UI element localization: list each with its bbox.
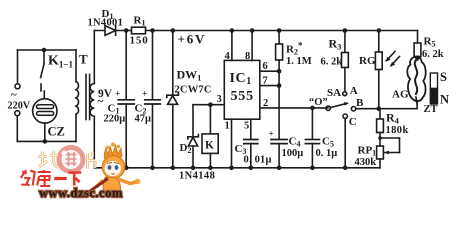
contact B — [351, 107, 355, 111]
pin 3 wire — [193, 104, 224, 106]
capacitor C3 — [244, 139, 258, 141]
node rail C1 — [124, 28, 129, 33]
watermark mascot — [88, 143, 140, 195]
svg-text:SA: SA — [327, 87, 341, 99]
pin 4 wire — [231, 31, 233, 61]
node rail DW1 — [171, 28, 176, 33]
pin 5 wire — [250, 119, 252, 139]
switch SA blade — [330, 103, 347, 107]
svg-text:220μ: 220μ — [104, 114, 126, 125]
relay contact K1-1 — [43, 50, 45, 64]
node gnd C5 — [310, 166, 315, 171]
svg-text:220V: 220V — [8, 101, 31, 112]
svg-text:T: T — [79, 52, 88, 67]
watermark char pian — [88, 152, 96, 169]
wire +6V top rail — [94, 30, 417, 32]
socket CZ — [33, 99, 57, 123]
svg-text:AG: AG — [392, 89, 409, 101]
resistor R5 — [417, 31, 419, 44]
transformer T secondary — [93, 31, 95, 84]
node gnd K — [208, 166, 213, 171]
wire ground rail — [94, 167, 380, 169]
relay coil K — [209, 105, 211, 134]
node gnd C3 — [249, 166, 254, 171]
diode D1 — [105, 26, 116, 36]
svg-text:www.dzsc.com: www.dzsc.com — [39, 186, 123, 200]
node rail R3 — [343, 28, 348, 33]
contact C — [343, 114, 347, 118]
node C5 junction — [310, 106, 315, 111]
svg-text:B: B — [356, 97, 364, 109]
wire mains top — [18, 49, 77, 51]
pin 2 wire — [260, 107, 328, 109]
IC U1 555 — [224, 60, 259, 119]
svg-text:+6V: +6V — [178, 32, 207, 47]
node mains top junction — [42, 48, 47, 53]
watermark badge ring — [38, 148, 95, 172]
wiper RP1 — [383, 152, 399, 154]
svg-text:S: S — [440, 70, 447, 84]
svg-text:CZ: CZ — [48, 125, 65, 139]
node AG top — [415, 56, 420, 61]
pin 6 wire — [260, 70, 279, 72]
svg-text:2CW7C: 2CW7C — [175, 85, 212, 96]
node CZ bottom — [43, 139, 48, 144]
plug 220V terminal bottom — [15, 111, 20, 116]
svg-text:4: 4 — [225, 51, 231, 62]
pin 7 wire — [260, 85, 279, 87]
svg-text:A: A — [350, 85, 358, 97]
svg-text:8: 8 — [245, 51, 250, 62]
photoresistor RG — [378, 31, 380, 53]
svg-text:0. 01μ: 0. 01μ — [244, 155, 272, 166]
svg-text:150: 150 — [130, 35, 149, 47]
zener diode DW1 — [172, 31, 174, 96]
node rail pin8 — [250, 28, 255, 33]
svg-text:+: + — [269, 129, 274, 139]
node gnd C1 — [124, 166, 129, 171]
svg-text:+: + — [142, 90, 147, 100]
svg-text:1: 1 — [225, 121, 230, 132]
svg-text:ZT: ZT — [424, 104, 438, 115]
transformer core — [85, 75, 87, 120]
svg-text:+: + — [115, 90, 120, 100]
node gnd D2 — [191, 166, 196, 171]
svg-text:2: 2 — [263, 98, 268, 109]
watermark weiku text — [21, 170, 81, 186]
node gnd DW1 — [171, 166, 176, 171]
switch SA pole — [326, 106, 330, 110]
node gnd C2 — [150, 166, 155, 171]
watermark char zhao — [38, 151, 59, 168]
svg-text:1N4148: 1N4148 — [179, 171, 215, 182]
node pin3/K — [208, 102, 213, 107]
node gnd C4 — [277, 166, 282, 171]
node pin7 junction — [277, 83, 282, 88]
svg-text:5: 5 — [244, 121, 249, 132]
svg-text:6. 2k: 6. 2k — [422, 49, 444, 60]
svg-text:6. 2k: 6. 2k — [321, 57, 343, 68]
svg-text:~: ~ — [98, 96, 104, 108]
wire contact C to ground — [344, 118, 346, 167]
svg-text:1N4001: 1N4001 — [88, 18, 124, 29]
transformer T primary — [75, 50, 77, 82]
resistor R3 — [344, 31, 346, 53]
svg-text:555: 555 — [231, 89, 254, 104]
svg-text:“O”: “O” — [309, 97, 328, 108]
wire mains bottom — [17, 140, 76, 142]
potentiometer RP1 — [377, 146, 384, 159]
svg-text:0. 1μ: 0. 1μ — [316, 148, 338, 159]
contact A — [343, 92, 347, 96]
node pin6 junction — [277, 69, 282, 74]
resistor R4 — [379, 109, 381, 119]
wire B to AG bottom — [356, 108, 417, 110]
node RG/R4/B — [377, 106, 382, 111]
node rail R2 — [277, 28, 282, 33]
svg-text:K: K — [205, 140, 214, 152]
capacitor C1 — [125, 31, 127, 100]
resistor R1 — [132, 27, 146, 34]
svg-text:100μ: 100μ — [282, 148, 304, 159]
pin 8 wire — [251, 31, 253, 61]
svg-text:1. 1M: 1. 1M — [286, 56, 312, 67]
svg-text:7: 7 — [263, 76, 268, 87]
node RP1 top — [378, 136, 382, 140]
node rail C2 — [150, 28, 155, 33]
svg-text:C: C — [349, 116, 357, 128]
svg-text:3: 3 — [217, 94, 222, 105]
node gnd pin1 — [229, 166, 234, 171]
svg-text:~: ~ — [11, 89, 17, 101]
capacitor C5 — [311, 108, 313, 139]
svg-text:47μ: 47μ — [135, 114, 152, 125]
svg-text:RG: RG — [359, 55, 376, 67]
node C ground — [343, 166, 348, 171]
node rail pin4 — [230, 28, 235, 33]
capacitor C4 — [271, 139, 287, 141]
svg-text:430k: 430k — [355, 157, 377, 168]
capacitor C2 — [152, 31, 154, 100]
plug 220V terminal top — [17, 50, 19, 84]
pin 1 wire — [231, 119, 233, 168]
magnet ZT — [430, 73, 437, 89]
diode D2 — [192, 105, 194, 137]
light arrows RG — [387, 52, 396, 61]
node rail RG — [377, 28, 382, 33]
svg-text:180k: 180k — [386, 125, 409, 136]
resistor R2* — [278, 31, 280, 45]
svg-text:6: 6 — [263, 61, 268, 72]
reed tube AG — [407, 57, 425, 101]
svg-text:N: N — [440, 93, 449, 107]
